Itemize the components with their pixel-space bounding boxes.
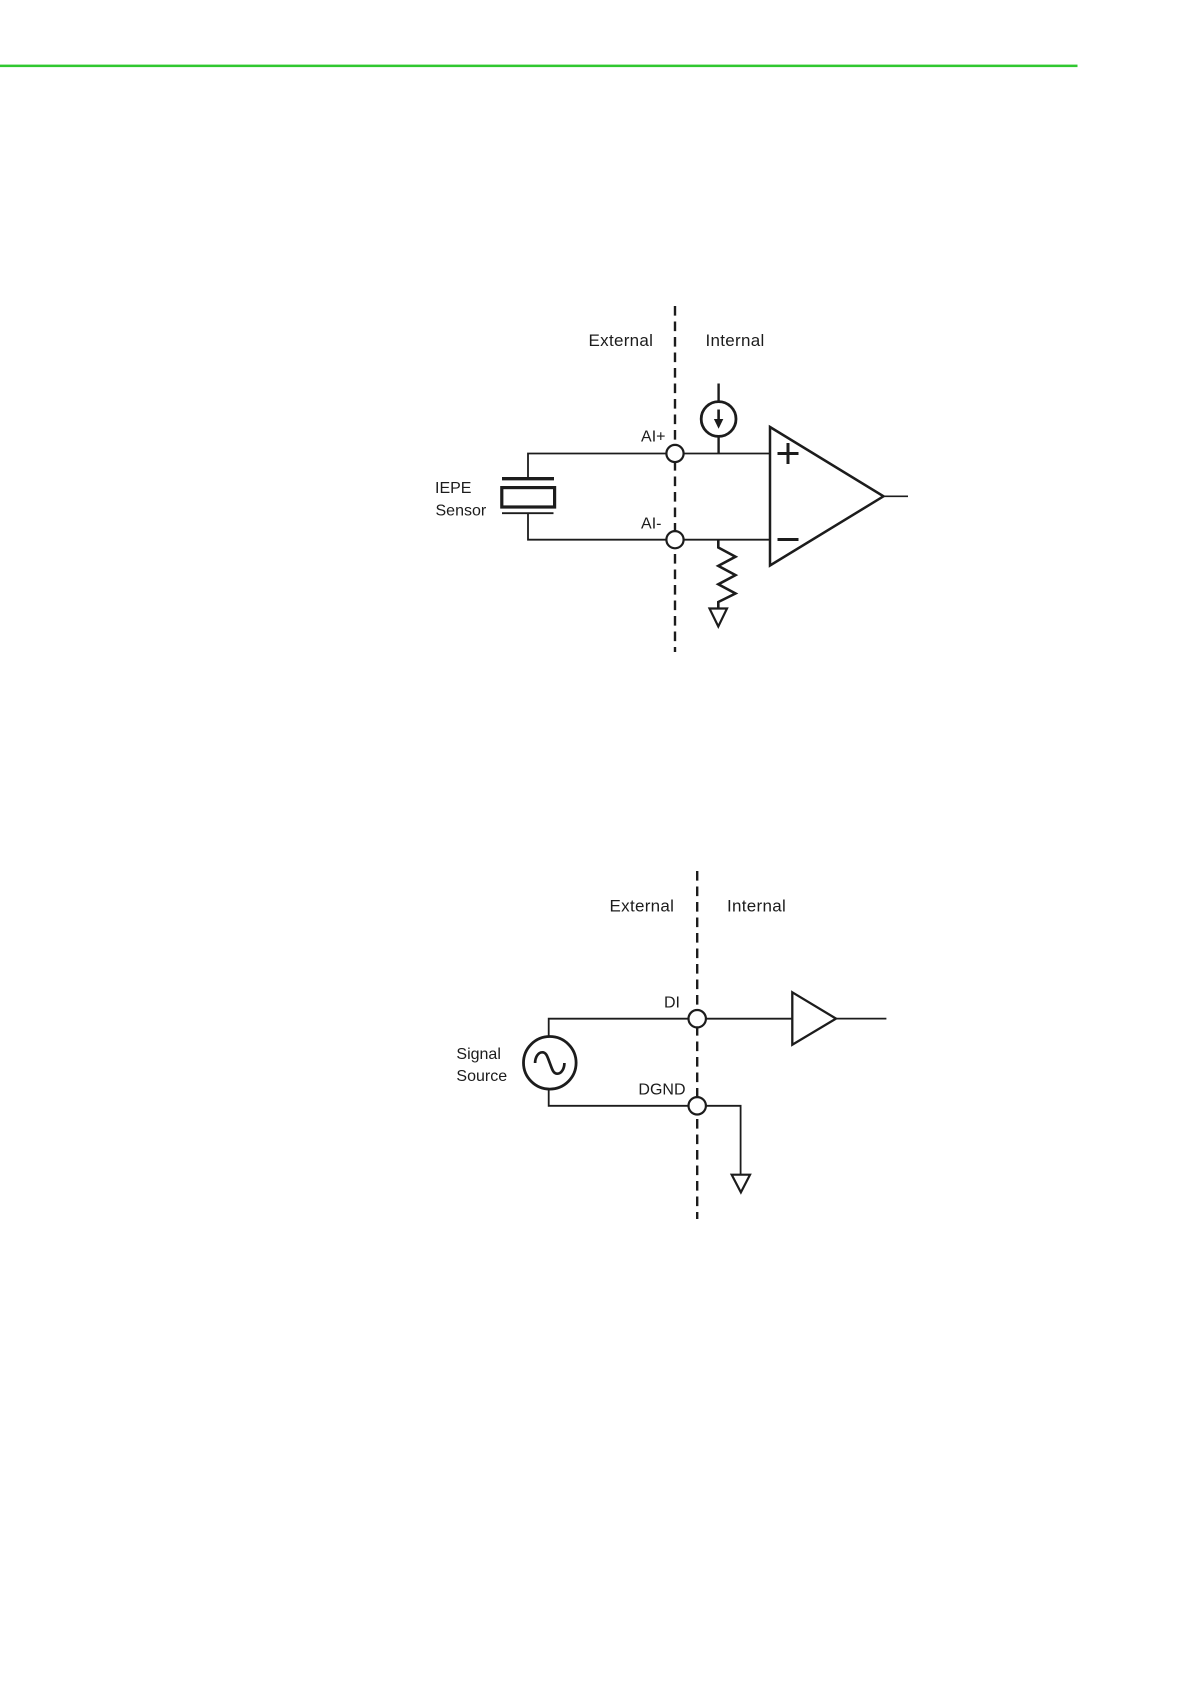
wire AI+ net (sensor top to op-amp +): [528, 454, 770, 479]
svg-text:Signal: Signal: [456, 1046, 500, 1063]
boundary dashed line External/Internal: [674, 306, 676, 652]
boundary dashed line External/Internal: [696, 871, 698, 1219]
svg-text:AI+: AI+: [641, 429, 665, 446]
node AI-: [666, 531, 683, 548]
svg-text:AI-: AI-: [641, 516, 661, 533]
svg-text:Sensor: Sensor: [436, 503, 487, 520]
svg-text:Source: Source: [456, 1068, 507, 1085]
svg-text:Internal: Internal: [706, 331, 765, 350]
IEPE sensor piezo element: [502, 479, 555, 514]
svg-text:DGND: DGND: [638, 1082, 685, 1099]
svg-text:DI: DI: [664, 995, 680, 1012]
wire op-amp output: [884, 495, 909, 497]
wire AI- net (sensor bottom to op-amp -): [528, 514, 770, 540]
green header rule: [0, 65, 1078, 68]
ground (schematic 1): [710, 609, 728, 627]
node DGND: [689, 1097, 706, 1114]
signal source (AC): [524, 1037, 577, 1090]
wire DGND net (source bottom to ground): [549, 1089, 741, 1175]
node AI+: [666, 445, 683, 462]
op-amp U1: [770, 427, 884, 566]
resistor (AI- bias to ground): [718, 540, 735, 609]
buffer U2: [792, 992, 836, 1044]
wire DI net (source top to buffer): [549, 1019, 793, 1037]
svg-text:Internal: Internal: [727, 897, 786, 916]
node DI: [689, 1010, 706, 1027]
svg-text:External: External: [610, 897, 675, 916]
svg-text:IEPE: IEPE: [435, 480, 471, 497]
wire buffer output: [836, 1018, 886, 1020]
ground (schematic 2): [732, 1175, 750, 1193]
current source: [701, 384, 736, 454]
svg-text:External: External: [589, 331, 654, 350]
